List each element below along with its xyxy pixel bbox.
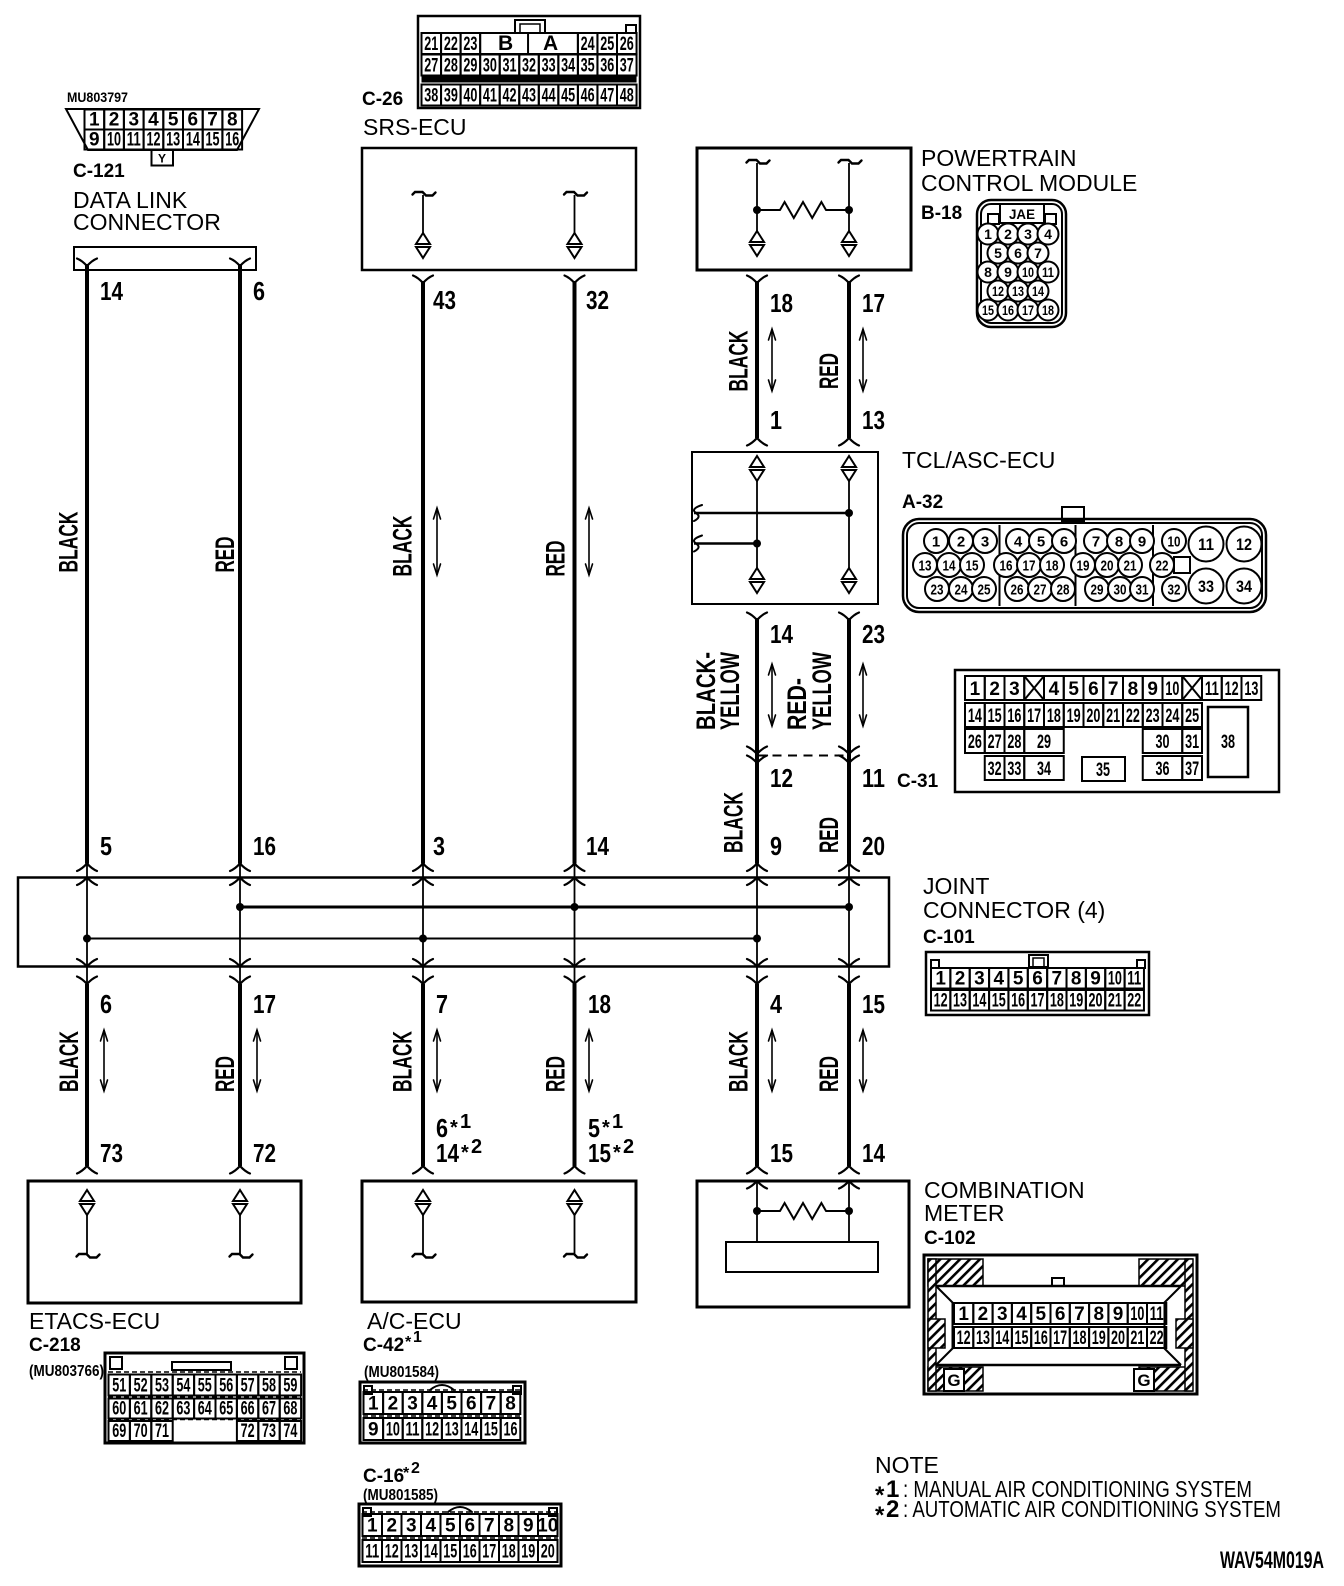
- svg-text:6: 6: [1060, 533, 1068, 550]
- svg-text:30: 30: [1114, 581, 1127, 598]
- svg-text:POWERTRAIN: POWERTRAIN: [921, 145, 1076, 171]
- svg-text:19: 19: [521, 1542, 535, 1563]
- svg-text:11: 11: [406, 1420, 420, 1441]
- svg-text:15: 15: [206, 130, 220, 151]
- svg-text:15: 15: [992, 991, 1006, 1012]
- svg-text:21: 21: [424, 34, 438, 55]
- svg-text:2: 2: [955, 969, 966, 990]
- svg-text:74: 74: [283, 1421, 297, 1442]
- svg-text:14: 14: [436, 1138, 459, 1168]
- svg-text:9: 9: [1004, 264, 1012, 280]
- svg-text:13: 13: [166, 130, 180, 151]
- svg-text:15: 15: [862, 989, 885, 1019]
- svg-text:BLACK: BLACK: [388, 1031, 418, 1092]
- svg-text:5: 5: [1013, 969, 1024, 990]
- svg-text:9: 9: [1090, 969, 1101, 990]
- svg-text:10: 10: [1130, 1304, 1144, 1325]
- svg-text:14: 14: [943, 557, 957, 574]
- svg-text:1: 1: [460, 1111, 471, 1133]
- svg-text:21: 21: [1130, 1328, 1144, 1349]
- svg-text:23: 23: [1146, 706, 1160, 727]
- svg-text:18: 18: [1047, 706, 1061, 727]
- svg-text:16: 16: [1034, 1328, 1048, 1349]
- svg-text:20: 20: [1101, 557, 1114, 574]
- svg-text:27: 27: [1034, 581, 1047, 598]
- svg-text:4: 4: [1014, 533, 1023, 550]
- svg-text:5: 5: [445, 1516, 456, 1537]
- svg-text:23: 23: [463, 34, 477, 55]
- svg-text:2: 2: [623, 1136, 634, 1158]
- svg-text:43: 43: [433, 285, 456, 315]
- svg-text:44: 44: [542, 86, 556, 107]
- svg-text:Y: Y: [158, 152, 166, 166]
- svg-text:29: 29: [1091, 581, 1104, 598]
- svg-text:10: 10: [107, 130, 121, 151]
- svg-text:25: 25: [600, 34, 614, 55]
- svg-text:C-101: C-101: [923, 927, 975, 948]
- svg-text:5: 5: [1036, 1304, 1047, 1325]
- svg-text:8: 8: [503, 1516, 514, 1537]
- svg-text:14: 14: [995, 1328, 1009, 1349]
- svg-text:MU803797: MU803797: [67, 89, 128, 105]
- svg-text:10: 10: [386, 1420, 400, 1441]
- svg-text:19: 19: [1067, 706, 1081, 727]
- svg-text:32: 32: [1168, 581, 1181, 598]
- svg-text:52: 52: [134, 1376, 148, 1397]
- svg-text:TCL/ASC-ECU: TCL/ASC-ECU: [902, 447, 1055, 473]
- svg-text:5: 5: [168, 110, 179, 131]
- svg-text:57: 57: [241, 1376, 255, 1397]
- svg-text:9: 9: [770, 831, 782, 861]
- svg-text:38: 38: [1221, 732, 1235, 753]
- svg-text:15: 15: [1015, 1328, 1029, 1349]
- svg-text:30: 30: [483, 56, 497, 77]
- svg-text:15: 15: [443, 1542, 457, 1563]
- svg-text:8: 8: [1071, 969, 1082, 990]
- svg-text:24: 24: [1165, 706, 1179, 727]
- svg-text:67: 67: [262, 1399, 276, 1420]
- svg-text:9: 9: [89, 130, 100, 151]
- svg-text:10: 10: [1165, 679, 1179, 700]
- svg-text:11: 11: [1150, 1304, 1164, 1325]
- svg-text:8: 8: [505, 1394, 516, 1415]
- svg-text:15: 15: [770, 1138, 793, 1168]
- svg-text:73: 73: [262, 1421, 276, 1442]
- svg-text:JOINT: JOINT: [923, 873, 989, 899]
- svg-text:28: 28: [1007, 732, 1021, 753]
- svg-text:4: 4: [427, 1394, 438, 1415]
- svg-text:C-31: C-31: [897, 771, 939, 792]
- svg-text:6: 6: [188, 110, 199, 131]
- svg-text:1: 1: [970, 679, 981, 700]
- svg-text:3: 3: [406, 1516, 417, 1537]
- svg-text:17: 17: [1022, 302, 1034, 318]
- svg-text:*: *: [405, 1334, 412, 1351]
- svg-text:22: 22: [1156, 557, 1169, 574]
- svg-text:6: 6: [1088, 679, 1099, 700]
- svg-text:15: 15: [588, 1138, 611, 1168]
- svg-text:31: 31: [1185, 732, 1199, 753]
- svg-text:2: 2: [1004, 226, 1012, 242]
- svg-text:24: 24: [581, 34, 595, 55]
- svg-text:33: 33: [542, 56, 556, 77]
- svg-text:11: 11: [1205, 679, 1219, 700]
- svg-text:42: 42: [502, 86, 516, 107]
- svg-text:13: 13: [1244, 679, 1258, 700]
- svg-text:14: 14: [186, 130, 200, 151]
- svg-text:4: 4: [993, 969, 1004, 990]
- svg-text:7: 7: [436, 989, 448, 1019]
- svg-text:20: 20: [1089, 991, 1103, 1012]
- svg-text:NOTE: NOTE: [875, 1452, 939, 1478]
- svg-text:7: 7: [1034, 245, 1042, 261]
- svg-text:1: 1: [935, 969, 946, 990]
- svg-text:RED: RED: [814, 817, 844, 853]
- svg-text:8: 8: [1093, 1304, 1104, 1325]
- svg-text:*: *: [602, 1117, 610, 1139]
- svg-text:(MU801585): (MU801585): [363, 1487, 438, 1504]
- svg-text:4: 4: [425, 1516, 436, 1537]
- svg-text:8: 8: [1115, 533, 1123, 550]
- svg-text:41: 41: [483, 86, 497, 107]
- svg-text:1: 1: [367, 1516, 378, 1537]
- svg-text:4: 4: [1016, 1304, 1027, 1325]
- svg-text:45: 45: [561, 86, 575, 107]
- svg-text:C-121: C-121: [73, 161, 125, 182]
- svg-text:B-18: B-18: [921, 203, 962, 224]
- svg-text:18: 18: [1042, 302, 1054, 318]
- svg-text:3: 3: [407, 1394, 418, 1415]
- svg-text:3: 3: [1024, 226, 1032, 242]
- svg-text:3: 3: [981, 533, 989, 550]
- svg-text:10: 10: [1168, 533, 1181, 550]
- svg-text:1: 1: [958, 1304, 969, 1325]
- svg-text:15: 15: [966, 557, 979, 574]
- svg-text:46: 46: [581, 86, 595, 107]
- svg-text:6: 6: [466, 1394, 477, 1415]
- svg-text:13: 13: [1012, 283, 1024, 299]
- svg-text:G: G: [1137, 1371, 1150, 1390]
- svg-text:(MU801584): (MU801584): [364, 1364, 439, 1381]
- svg-text:*: *: [875, 1502, 885, 1529]
- svg-text:7: 7: [1092, 533, 1100, 550]
- svg-text:13: 13: [445, 1420, 459, 1441]
- svg-text:22: 22: [1150, 1328, 1164, 1349]
- svg-text:12: 12: [425, 1420, 439, 1441]
- svg-text:26: 26: [1011, 581, 1024, 598]
- svg-text:1: 1: [413, 1329, 422, 1346]
- svg-text:32: 32: [586, 285, 609, 315]
- svg-text:12: 12: [1236, 535, 1252, 554]
- svg-text:*: *: [461, 1142, 469, 1164]
- svg-text:27: 27: [424, 56, 438, 77]
- svg-text:11: 11: [127, 130, 141, 151]
- svg-text:1: 1: [770, 405, 782, 435]
- svg-text:14: 14: [586, 831, 609, 861]
- svg-text:43: 43: [522, 86, 536, 107]
- svg-text:12: 12: [992, 283, 1004, 299]
- svg-text:11: 11: [1042, 264, 1054, 280]
- svg-text:30: 30: [1156, 732, 1170, 753]
- svg-text:25: 25: [978, 581, 991, 598]
- svg-text:14: 14: [862, 1138, 885, 1168]
- svg-text:33: 33: [1198, 577, 1214, 596]
- svg-text:16: 16: [253, 831, 276, 861]
- svg-text:18: 18: [588, 989, 611, 1019]
- svg-text:58: 58: [262, 1376, 276, 1397]
- svg-text:13: 13: [919, 557, 932, 574]
- svg-text:15: 15: [988, 706, 1002, 727]
- svg-text:21: 21: [1124, 557, 1137, 574]
- svg-text:2: 2: [978, 1304, 989, 1325]
- svg-text:72: 72: [253, 1138, 276, 1168]
- svg-text:60: 60: [112, 1399, 126, 1420]
- svg-text:18: 18: [1072, 1328, 1086, 1349]
- svg-text:38: 38: [424, 86, 438, 107]
- svg-text:35: 35: [581, 56, 595, 77]
- svg-text:62: 62: [155, 1399, 169, 1420]
- svg-text:1: 1: [368, 1394, 379, 1415]
- svg-text:WAV54M019A: WAV54M019A: [1220, 1547, 1324, 1574]
- svg-text:1: 1: [89, 110, 100, 131]
- svg-text:ETACS-ECU: ETACS-ECU: [29, 1308, 160, 1334]
- svg-text:1: 1: [612, 1111, 623, 1133]
- svg-text:BLACK: BLACK: [54, 511, 84, 572]
- svg-text:2: 2: [411, 1460, 420, 1477]
- svg-text:40: 40: [463, 86, 477, 107]
- svg-text:4: 4: [1049, 679, 1060, 700]
- svg-text:7: 7: [1074, 1304, 1085, 1325]
- svg-text:51: 51: [112, 1376, 126, 1397]
- svg-text:BLACK: BLACK: [388, 515, 418, 576]
- svg-text:53: 53: [155, 1376, 169, 1397]
- svg-text:C-16: C-16: [363, 1466, 404, 1487]
- svg-text:BLACK: BLACK: [724, 1031, 754, 1092]
- svg-text:16: 16: [504, 1420, 518, 1441]
- svg-text:11: 11: [862, 763, 885, 793]
- svg-text:17: 17: [1027, 706, 1041, 727]
- svg-text:*: *: [450, 1117, 458, 1139]
- svg-text:2: 2: [886, 1496, 899, 1523]
- svg-text:14: 14: [770, 619, 793, 649]
- svg-text:16: 16: [1000, 557, 1013, 574]
- svg-text:*: *: [403, 1465, 410, 1482]
- svg-text:2: 2: [989, 679, 1000, 700]
- svg-text:31: 31: [1136, 581, 1149, 598]
- svg-text:19: 19: [1092, 1328, 1106, 1349]
- svg-text:JAE: JAE: [1009, 206, 1035, 222]
- svg-text:9: 9: [368, 1420, 379, 1441]
- svg-text:6: 6: [1014, 245, 1022, 261]
- svg-text:2: 2: [471, 1136, 482, 1158]
- svg-text:14: 14: [424, 1542, 438, 1563]
- svg-text:A: A: [543, 32, 558, 55]
- svg-text:12: 12: [1225, 679, 1239, 700]
- svg-text:7: 7: [486, 1394, 497, 1415]
- svg-text:10: 10: [1022, 264, 1034, 280]
- svg-text:9: 9: [1147, 679, 1158, 700]
- svg-text:39: 39: [444, 86, 458, 107]
- svg-text:20: 20: [1111, 1328, 1125, 1349]
- svg-text:71: 71: [155, 1421, 169, 1442]
- svg-text:11: 11: [1198, 535, 1214, 554]
- svg-text:20: 20: [1086, 706, 1100, 727]
- svg-text:47: 47: [600, 86, 614, 107]
- svg-text:32: 32: [988, 759, 1002, 780]
- svg-text:3: 3: [974, 969, 985, 990]
- svg-text:16: 16: [1011, 991, 1025, 1012]
- svg-text:17: 17: [1053, 1328, 1067, 1349]
- svg-text:26: 26: [968, 732, 982, 753]
- svg-text:29: 29: [463, 56, 477, 77]
- svg-text:9: 9: [1138, 533, 1146, 550]
- svg-text:22: 22: [444, 34, 458, 55]
- svg-text:8: 8: [1128, 679, 1139, 700]
- svg-text:54: 54: [176, 1376, 190, 1397]
- svg-text:31: 31: [502, 56, 516, 77]
- svg-text:14: 14: [968, 706, 982, 727]
- svg-text:13: 13: [862, 405, 885, 435]
- svg-text:10: 10: [1108, 969, 1122, 990]
- svg-text:17: 17: [862, 288, 885, 318]
- svg-text:4: 4: [770, 989, 782, 1019]
- svg-text:34: 34: [561, 56, 575, 77]
- svg-text:BLACK: BLACK: [724, 330, 754, 391]
- svg-text:36: 36: [1156, 759, 1170, 780]
- svg-text:18: 18: [1046, 557, 1059, 574]
- svg-text:34: 34: [1236, 577, 1252, 596]
- svg-text:8: 8: [984, 264, 992, 280]
- svg-text:C-218: C-218: [29, 1335, 81, 1356]
- svg-text:1: 1: [984, 226, 992, 242]
- svg-text:37: 37: [620, 56, 634, 77]
- svg-text:2: 2: [109, 110, 120, 131]
- svg-text:11: 11: [1127, 969, 1141, 990]
- svg-text:(MU803766): (MU803766): [29, 1363, 104, 1380]
- svg-text:16: 16: [225, 130, 239, 151]
- svg-text:15: 15: [484, 1420, 498, 1441]
- svg-text:12: 12: [770, 763, 793, 793]
- svg-text:17: 17: [1023, 557, 1036, 574]
- svg-text:4: 4: [1044, 226, 1052, 242]
- svg-text:BLACK: BLACK: [54, 1031, 84, 1092]
- svg-text:18: 18: [770, 288, 793, 318]
- svg-text:73: 73: [100, 1138, 123, 1168]
- svg-text:7: 7: [207, 110, 218, 131]
- svg-text:63: 63: [176, 1399, 190, 1420]
- svg-text:RED: RED: [814, 1056, 844, 1092]
- svg-text:20: 20: [862, 831, 885, 861]
- svg-text:48: 48: [620, 86, 634, 107]
- svg-text:22: 22: [1127, 991, 1141, 1012]
- svg-text:18: 18: [1050, 991, 1064, 1012]
- svg-text:13: 13: [404, 1542, 418, 1563]
- svg-text:*: *: [613, 1142, 621, 1164]
- svg-text:24: 24: [955, 581, 969, 598]
- svg-text:27: 27: [988, 732, 1002, 753]
- svg-text:RED: RED: [210, 1056, 240, 1092]
- svg-text:25: 25: [1185, 706, 1199, 727]
- svg-text:7: 7: [484, 1516, 495, 1537]
- svg-text:B: B: [498, 32, 513, 55]
- svg-text:5: 5: [1037, 533, 1045, 550]
- svg-text:YELLOW: YELLOW: [807, 652, 837, 730]
- svg-text:12: 12: [934, 991, 948, 1012]
- svg-text:19: 19: [1069, 991, 1083, 1012]
- svg-text:61: 61: [134, 1399, 148, 1420]
- svg-text:15: 15: [982, 302, 994, 318]
- svg-text:18: 18: [502, 1542, 516, 1563]
- svg-text:C-26: C-26: [362, 89, 403, 110]
- svg-text:16: 16: [1007, 706, 1021, 727]
- svg-text:14: 14: [464, 1420, 478, 1441]
- svg-text:37: 37: [1185, 759, 1199, 780]
- svg-text:CONTROL MODULE: CONTROL MODULE: [921, 170, 1137, 196]
- svg-text:33: 33: [1007, 759, 1021, 780]
- svg-text:5: 5: [994, 245, 1002, 261]
- svg-text:64: 64: [198, 1399, 212, 1420]
- svg-text:6: 6: [253, 276, 265, 306]
- svg-text:29: 29: [1037, 732, 1051, 753]
- svg-text:55: 55: [198, 1376, 212, 1397]
- svg-text:C-42: C-42: [363, 1335, 404, 1356]
- svg-text:2: 2: [386, 1516, 397, 1537]
- svg-text:21: 21: [1108, 991, 1122, 1012]
- svg-text:11: 11: [365, 1542, 379, 1563]
- svg-text:17: 17: [482, 1542, 496, 1563]
- svg-text:17: 17: [1030, 991, 1044, 1012]
- svg-text:22: 22: [1126, 706, 1140, 727]
- svg-text:70: 70: [134, 1421, 148, 1442]
- svg-text:34: 34: [1037, 759, 1051, 780]
- svg-text:6: 6: [100, 989, 112, 1019]
- svg-text:9: 9: [1113, 1304, 1124, 1325]
- svg-text:A-32: A-32: [902, 492, 943, 513]
- svg-text:3: 3: [997, 1304, 1008, 1325]
- svg-text:23: 23: [931, 581, 944, 598]
- svg-text:BLACK: BLACK: [719, 792, 749, 853]
- svg-text:56: 56: [219, 1376, 233, 1397]
- svg-text:C-102: C-102: [924, 1228, 976, 1249]
- svg-text:METER: METER: [924, 1200, 1005, 1226]
- svg-text:7: 7: [1108, 679, 1119, 700]
- svg-text:G: G: [947, 1371, 960, 1390]
- svg-text:12: 12: [385, 1542, 399, 1563]
- svg-text:19: 19: [1077, 557, 1090, 574]
- svg-text:RED: RED: [541, 1056, 571, 1092]
- svg-text:10: 10: [537, 1516, 558, 1537]
- svg-text:CONNECTOR (4): CONNECTOR (4): [923, 897, 1105, 923]
- svg-text:12: 12: [957, 1328, 971, 1349]
- svg-text:4: 4: [148, 110, 159, 131]
- svg-text:6: 6: [464, 1516, 475, 1537]
- svg-text:RED: RED: [541, 541, 571, 577]
- svg-text:26: 26: [620, 34, 634, 55]
- svg-text:17: 17: [253, 989, 276, 1019]
- svg-text:20: 20: [541, 1542, 555, 1563]
- svg-text:21: 21: [1106, 706, 1120, 727]
- svg-text:3: 3: [433, 831, 445, 861]
- svg-text:69: 69: [112, 1421, 126, 1442]
- svg-text:16: 16: [1002, 302, 1014, 318]
- svg-text:35: 35: [1096, 760, 1110, 781]
- svg-text:32: 32: [522, 56, 536, 77]
- svg-text:YELLOW: YELLOW: [715, 652, 745, 730]
- svg-text:2: 2: [957, 533, 965, 550]
- svg-text:6: 6: [1055, 1304, 1066, 1325]
- svg-text:23: 23: [862, 619, 885, 649]
- svg-text:13: 13: [953, 991, 967, 1012]
